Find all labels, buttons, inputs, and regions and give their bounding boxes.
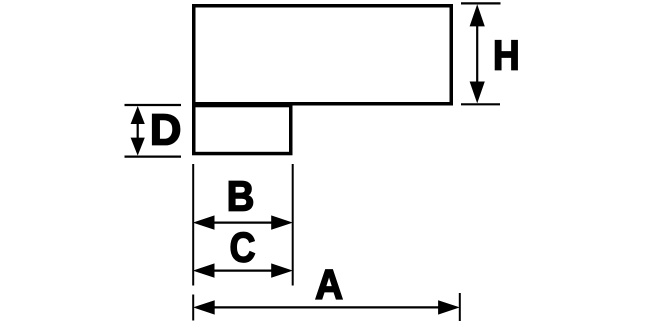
small rectangle (profile foot): [194, 106, 291, 154]
dimension A: shaft: [208, 306, 445, 308]
dimension B: left arrowhead: [193, 215, 215, 229]
dimension H: shaft: [476, 18, 478, 90]
extension line left (A): [192, 295, 194, 321]
dimension C: left arrowhead: [193, 263, 215, 277]
dimension D: bottom tick: [125, 156, 182, 158]
svg-text:A: A: [315, 263, 343, 309]
dimension C: shaft: [208, 270, 278, 272]
dimension H: bottom tick: [461, 103, 500, 105]
svg-text:D: D: [150, 107, 181, 155]
dimension B: shaft: [208, 222, 278, 224]
dimension H: up arrowhead: [470, 4, 485, 26]
dimension D: up arrowhead: [131, 106, 145, 124]
svg-text:B: B: [227, 174, 255, 220]
dimension B: right arrowhead: [271, 215, 293, 229]
svg-text:H: H: [493, 32, 520, 78]
dimension H: top tick: [461, 2, 501, 4]
dimension C: right arrowhead: [271, 263, 293, 277]
dimension H: down arrowhead: [470, 82, 485, 104]
dimension A: left arrowhead: [193, 300, 215, 314]
extension line left (B/C): [192, 164, 194, 286]
big rectangle (profile body): [194, 6, 452, 104]
dimension D: down arrowhead: [131, 138, 145, 156]
extension line right (B/C): [292, 164, 294, 286]
svg-text:C: C: [230, 225, 256, 271]
dimension A: right arrowhead: [438, 300, 460, 314]
dimension D: top tick: [125, 104, 182, 106]
dimension D: shaft: [137, 118, 139, 143]
extension line right (A): [459, 293, 461, 321]
